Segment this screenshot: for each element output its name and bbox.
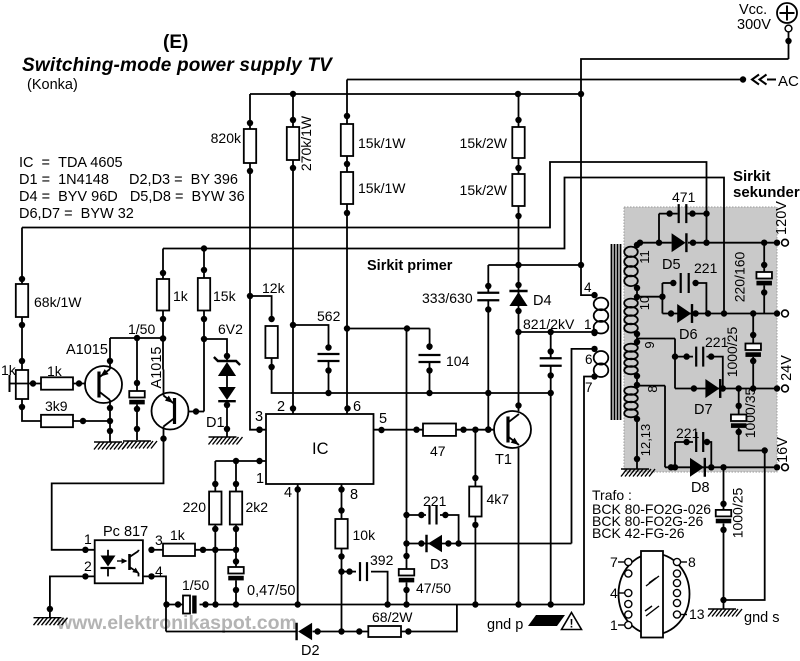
capacitor 221 D3 <box>407 506 459 544</box>
label 6V2 <box>218 321 243 337</box>
svg-text:471: 471 <box>672 189 696 205</box>
diode D3 <box>427 535 449 573</box>
svg-text:6: 6 <box>585 352 593 367</box>
resistor 1k vertical <box>1 362 28 399</box>
terminal 16V <box>775 437 791 471</box>
resistor 3k9 <box>41 398 73 427</box>
wire bottom rail <box>200 601 585 607</box>
parts list line 3 <box>19 189 245 205</box>
wire tap9 to D7 <box>637 339 678 389</box>
transistor Q2 A1015 <box>149 347 189 430</box>
svg-text:392: 392 <box>370 552 394 568</box>
resistor 1k opto <box>163 527 195 556</box>
wire 328 rail <box>347 325 430 331</box>
wire 15k1W column <box>344 80 351 415</box>
svg-text:D7: D7 <box>694 402 713 418</box>
svg-text:sekunder: sekunder <box>733 184 800 201</box>
ground opto <box>34 618 68 626</box>
wire 821 to gnd p <box>548 390 554 608</box>
inductor secondary 10 <box>624 299 638 333</box>
svg-text:4: 4 <box>584 280 592 295</box>
label (E) <box>163 32 188 53</box>
wire tap11 row <box>637 240 672 246</box>
diode D5 <box>662 233 686 273</box>
label 392 <box>370 552 394 568</box>
resistor 10k <box>335 519 376 549</box>
resistor 15k <box>198 278 237 311</box>
svg-text:6: 6 <box>353 399 361 415</box>
svg-text:Pc 817: Pc 817 <box>103 524 148 540</box>
capacitor 471 <box>659 189 710 243</box>
svg-text:D3: D3 <box>430 557 449 573</box>
svg-text:47: 47 <box>430 443 446 459</box>
transistor T1 <box>494 411 531 468</box>
diode D2 <box>297 623 320 659</box>
svg-text:Sirkit primer: Sirkit primer <box>367 258 453 274</box>
wire pin4 column <box>295 484 301 608</box>
wire 2k2 bottom <box>233 525 239 568</box>
optocoupler Pc817 <box>95 524 148 583</box>
svg-text:10: 10 <box>637 296 652 310</box>
svg-text:4k7: 4k7 <box>487 491 510 507</box>
resistor 12k <box>262 280 286 370</box>
wire primary pin6 <box>572 346 598 544</box>
resistor 1k horizontal <box>41 363 73 390</box>
pin2 opto label <box>84 558 92 574</box>
svg-text:1000/35: 1000/35 <box>742 387 758 438</box>
svg-text:562: 562 <box>317 308 341 324</box>
wire 2k2 column <box>233 461 239 492</box>
pin 3 label <box>255 409 263 433</box>
wire 1k bottom to 3k9 <box>19 399 41 421</box>
capacitor 221 D7 <box>675 334 729 389</box>
wire rail 1_50 <box>110 335 166 342</box>
svg-text:1k: 1k <box>170 527 186 543</box>
svg-text:12,13: 12,13 <box>638 424 653 457</box>
capacitor 1/50 upper <box>129 338 145 440</box>
shaded region: sirkit sekunder <box>624 207 777 472</box>
svg-text:24V: 24V <box>779 355 795 381</box>
warning triangle <box>562 613 582 631</box>
svg-text:8: 8 <box>350 487 358 503</box>
Vcc 300V terminal <box>737 2 797 33</box>
wire D3 column <box>403 329 409 570</box>
capacitor 221 D8 <box>675 425 711 467</box>
wire 12k to rail393 <box>272 358 551 396</box>
svg-text:15k/1W: 15k/1W <box>358 135 406 151</box>
wire D1 to ground <box>224 375 230 437</box>
inductor secondary 11 <box>624 247 652 286</box>
inductor secondary 9 <box>624 344 638 375</box>
label BCK list <box>592 501 711 541</box>
wire primary pin4 <box>581 94 598 298</box>
label Sirkit primer <box>367 258 453 274</box>
svg-text:AC: AC <box>778 73 799 90</box>
svg-text:300V: 300V <box>737 17 771 33</box>
pin4 opto label <box>155 563 163 579</box>
svg-text:5: 5 <box>379 411 387 427</box>
wire tap 8 <box>634 373 660 393</box>
svg-text:15k: 15k <box>213 288 237 304</box>
svg-text:gnd s: gnd s <box>744 610 779 626</box>
wire D6 row <box>662 310 780 316</box>
wire feedback A <box>22 162 707 243</box>
svg-text:3: 3 <box>155 532 163 548</box>
svg-text:68/2W: 68/2W <box>372 609 413 625</box>
resistor 220 <box>183 492 222 525</box>
wire Q2 emitter <box>163 370 165 396</box>
wire D5 cathode row <box>688 240 780 246</box>
resistor 820k <box>211 129 257 163</box>
capacitor 221 D6 <box>662 260 717 314</box>
svg-text:2: 2 <box>277 399 285 415</box>
ground flag gnd p <box>487 615 565 633</box>
svg-text:9: 9 <box>642 341 657 348</box>
svg-text:7: 7 <box>610 554 618 570</box>
diode D7 <box>694 379 720 418</box>
svg-text:68k/1W: 68k/1W <box>34 294 82 310</box>
capacitor 562 <box>318 354 340 393</box>
wire Q2 collector <box>52 427 167 554</box>
wire top rail y94 <box>250 91 584 97</box>
wire Q2 base <box>189 408 205 414</box>
ground gnd s <box>708 609 779 626</box>
svg-text:gnd p: gnd p <box>487 617 523 633</box>
label 821/2kV <box>523 316 575 332</box>
svg-text:A1015: A1015 <box>66 342 108 358</box>
svg-text:16V: 16V <box>775 437 791 463</box>
svg-text:D2: D2 <box>301 643 320 656</box>
svg-text:!: ! <box>570 617 574 631</box>
wire 4k7 bottom <box>472 517 478 608</box>
resistor 2k2 <box>230 492 268 525</box>
capacitor 0,47/50 <box>228 567 295 605</box>
wire 562 top <box>293 325 332 351</box>
svg-text:8: 8 <box>688 554 696 570</box>
svg-text:221: 221 <box>676 425 700 441</box>
wire 270k column <box>290 94 296 328</box>
wire 10k to D2 row <box>338 549 344 635</box>
wire bottom rail left <box>163 601 183 607</box>
resistor 15k/1W lower <box>341 172 406 204</box>
svg-text:IC = TDA 4605: IC = TDA 4605 <box>19 155 123 171</box>
wire primary pin7 <box>584 373 598 604</box>
svg-text:1: 1 <box>584 317 592 332</box>
svg-text:15k/1W: 15k/1W <box>358 180 406 196</box>
wire 3k9 to Q1 collector <box>73 418 113 424</box>
inductor secondary 8 <box>624 387 638 418</box>
ground Q1 <box>94 442 128 450</box>
svg-text:1k: 1k <box>47 363 63 379</box>
svg-text:13: 13 <box>689 606 705 622</box>
svg-text:10k: 10k <box>353 527 377 543</box>
resistor 68k/1W <box>16 284 82 317</box>
svg-text:821/2kV: 821/2kV <box>523 316 575 332</box>
capacitor 104 <box>419 353 470 393</box>
wire secondary bottom <box>634 416 653 469</box>
capacitor 1000/35 <box>724 387 768 600</box>
svg-text:D8: D8 <box>691 480 710 496</box>
resistor 270k/1W <box>287 115 314 171</box>
op-amp IC TDA4605 box <box>266 414 374 484</box>
svg-text:(E): (E) <box>163 32 188 53</box>
capacitor 1000/25 lower <box>716 467 746 609</box>
AC arrow and label <box>752 73 799 90</box>
svg-text:1: 1 <box>256 471 264 487</box>
node Vcc wire <box>785 32 791 59</box>
svg-text:270k/1W: 270k/1W <box>298 115 314 171</box>
wire pin8 to 10k <box>338 484 344 519</box>
svg-text:820k: 820k <box>211 130 242 146</box>
svg-text:Switching-mode power supply TV: Switching-mode power supply TV <box>22 55 333 76</box>
svg-text:47/50: 47/50 <box>416 580 451 596</box>
svg-text:D1 = 1N4148 D2,D3 = BY 3: D1 = 1N4148 D2,D3 = BY 396 <box>19 172 238 188</box>
label Trafo <box>592 487 632 503</box>
wire 1k to Q1 base <box>73 380 97 386</box>
svg-text:104: 104 <box>446 353 470 369</box>
capacitor 333/630 <box>422 265 499 396</box>
svg-text:Vcc.: Vcc. <box>739 2 767 18</box>
wire rail248 corner to 1k <box>160 249 166 280</box>
terminal 24V <box>779 355 795 392</box>
wire snubber top <box>488 262 584 268</box>
wire pin5 to 47 <box>374 427 424 434</box>
pin 4 label <box>284 485 301 501</box>
label Sirkit sekunder <box>733 168 800 201</box>
svg-text:BCK 42-FG-26: BCK 42-FG-26 <box>592 525 685 541</box>
wire 68k to 1k <box>19 317 25 370</box>
svg-text:D4: D4 <box>533 293 552 309</box>
label pin 1 primary <box>584 317 598 336</box>
svg-text:333/630: 333/630 <box>422 290 473 306</box>
diode D8 <box>690 458 710 496</box>
resistor 47 <box>423 424 456 460</box>
wire Q1 collector to ground <box>107 400 113 442</box>
svg-text:6V2: 6V2 <box>218 321 243 337</box>
wire 820k column <box>247 94 253 296</box>
svg-text:221: 221 <box>694 260 718 276</box>
resistor 1k Q2 <box>157 279 189 311</box>
svg-text:15k/2W: 15k/2W <box>460 135 508 151</box>
wire 47 to T1 base <box>456 427 494 433</box>
wire 220 column <box>212 461 218 492</box>
wire 15k to D1 <box>204 339 230 360</box>
terminal out2 <box>782 310 789 317</box>
pin 5 label <box>379 411 387 427</box>
wire pin1 row <box>215 458 266 464</box>
wire opto pin3 row <box>148 547 163 553</box>
wire 1k tick <box>10 375 17 392</box>
wire 820k to IC pin3 <box>247 293 266 433</box>
wire opto pin4 <box>143 573 166 631</box>
pin 2 label <box>277 399 285 415</box>
svg-text:D1: D1 <box>206 415 225 431</box>
wire D7 row <box>675 385 780 391</box>
resistor 15k/2W lower <box>460 174 525 206</box>
capacitor 1000/25 upper <box>724 314 761 389</box>
wire 220 bottom <box>212 525 218 605</box>
wire tap 9 <box>634 331 657 349</box>
svg-text:1000/25: 1000/25 <box>724 326 740 377</box>
svg-text:221: 221 <box>423 493 447 509</box>
svg-text:220: 220 <box>183 499 207 515</box>
pin 1 label <box>256 458 264 487</box>
parts list line 4 <box>19 206 134 222</box>
title Switching-mode power supply TV <box>22 55 333 76</box>
capacitor 220/160 <box>732 243 772 314</box>
wire AC rail <box>347 76 746 82</box>
wire base row <box>16 380 41 386</box>
wire D3 row <box>407 540 572 546</box>
diode D1b <box>218 387 236 401</box>
svg-text:Sirkit: Sirkit <box>733 168 771 185</box>
transistor Q1 A1015 <box>66 342 122 403</box>
svg-text:11: 11 <box>637 250 652 264</box>
diode D4 <box>509 291 551 309</box>
pin 8 label <box>338 486 358 503</box>
svg-text:2: 2 <box>84 558 92 574</box>
svg-text:1000/25: 1000/25 <box>730 487 746 538</box>
resistor 15k/1W upper <box>341 124 406 156</box>
resistor 4k7 <box>469 487 509 517</box>
svg-text:IC: IC <box>312 440 329 458</box>
ground secondary <box>621 469 655 477</box>
svg-text:1/50: 1/50 <box>128 321 155 337</box>
wire 15k column <box>201 249 207 412</box>
zener D1a 6V2 <box>214 357 240 376</box>
wire 4k7 top <box>472 430 478 487</box>
resistor 15k/2W upper <box>460 127 525 158</box>
wire D2 to 68 <box>313 628 369 634</box>
wire tap10 to D6 <box>637 283 666 314</box>
subtitle (Konka) <box>27 77 78 93</box>
transformer pinout diagram <box>610 551 705 638</box>
transformer core <box>612 244 621 420</box>
wire pin1 rail <box>519 329 598 335</box>
svg-text:D5: D5 <box>662 257 681 273</box>
wire 68k column top <box>19 228 25 285</box>
wire feedback B <box>163 178 727 317</box>
wire T1 collector <box>515 332 521 411</box>
svg-text:1: 1 <box>610 617 618 633</box>
wire 104 top <box>426 329 432 351</box>
watermark www.elektronikaspot.com <box>56 612 297 634</box>
svg-text:T1: T1 <box>495 452 512 468</box>
wire 12k tap <box>250 296 272 319</box>
label 562 <box>317 308 341 324</box>
svg-text:7: 7 <box>585 380 593 395</box>
terminal 120V <box>774 201 790 246</box>
wire 333 to T1 base <box>485 393 491 433</box>
pin 6 label <box>353 399 361 415</box>
pin3 opto label <box>155 532 163 548</box>
wire tap8 to D8 <box>637 386 665 468</box>
capacitor 1/50 series <box>182 577 209 614</box>
pin1 opto label <box>84 531 92 547</box>
svg-text:1: 1 <box>84 531 92 547</box>
wire tap 10 <box>634 285 652 310</box>
svg-text:120V: 120V <box>774 201 790 235</box>
wire 1k opto right <box>195 547 236 553</box>
svg-text:220/160: 220/160 <box>732 251 748 302</box>
inductor primary 6-7 <box>594 351 609 377</box>
wire Vcc rail to transformer <box>581 59 789 94</box>
svg-text:1k: 1k <box>173 288 189 304</box>
svg-text:3: 3 <box>255 409 263 425</box>
parts list line 2 <box>19 172 238 188</box>
capacitor 821/2kV <box>540 332 562 393</box>
ground D1 <box>209 437 243 445</box>
wire opto pin2 <box>47 573 95 618</box>
label 221 D3 <box>423 493 447 509</box>
svg-text:15k/2W: 15k/2W <box>460 182 508 198</box>
capacitor 47/50 <box>399 569 451 608</box>
parts list line 1 <box>19 155 123 171</box>
svg-text:4: 4 <box>284 485 292 501</box>
svg-text:D4 = BYV 96D D5,D8 = BYW 3: D4 = BYV 96D D5,D8 = BYW 36 <box>19 189 245 205</box>
svg-text:12k: 12k <box>262 280 286 296</box>
capacitor 392 <box>342 562 388 604</box>
svg-text:0,47/50: 0,47/50 <box>247 583 295 599</box>
ground cap 1/50 <box>123 441 157 449</box>
wire 68 right <box>401 605 457 635</box>
diode D6 <box>677 304 697 343</box>
svg-text:2k2: 2k2 <box>246 499 269 515</box>
wire 1k Q2 to emitter <box>160 311 166 370</box>
wire T1 emitter <box>515 448 521 608</box>
wire 270k to IC pin2 <box>290 325 296 414</box>
svg-text:3k9: 3k9 <box>45 398 68 414</box>
wire D8 row <box>665 464 780 470</box>
svg-text:1/50: 1/50 <box>182 577 209 593</box>
label 1/50 upper <box>128 321 155 337</box>
svg-text:4: 4 <box>610 585 618 601</box>
svg-text:D6,D7 = BYW 32: D6,D7 = BYW 32 <box>19 206 134 222</box>
label D1 <box>206 415 225 431</box>
svg-text:D6: D6 <box>679 327 698 343</box>
wire 15k2W column <box>515 94 521 335</box>
wire D2 row left <box>166 631 297 633</box>
inductor primary 1-4 <box>594 298 609 334</box>
wire Q1 emitter <box>107 338 113 369</box>
svg-text:(Konka): (Konka) <box>27 77 78 93</box>
wire secondary top <box>634 242 640 248</box>
resistor 68/2W <box>368 609 413 637</box>
